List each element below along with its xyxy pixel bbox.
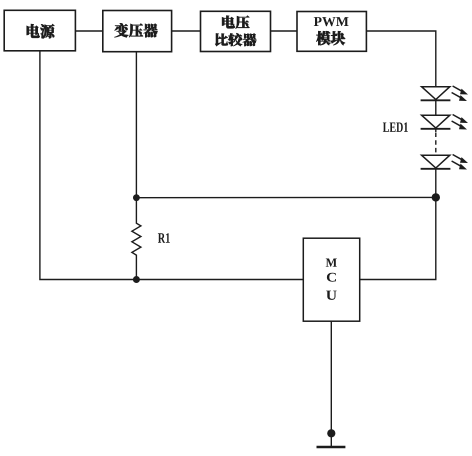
block: MCU bbox=[303, 238, 359, 321]
wire: PWM to LED string top bbox=[366, 31, 435, 87]
wire: LED1 to LED2 bbox=[435, 100, 437, 115]
label R1 bbox=[158, 233, 170, 243]
LED D2 of string LED1 bbox=[421, 115, 468, 130]
ground bbox=[317, 446, 346, 448]
block: power supply 电源 bbox=[4, 10, 75, 51]
block: PWM module PWM模块 bbox=[297, 12, 366, 52]
block: transformer 变压器 bbox=[103, 11, 172, 52]
wire: LED3 down to right junction and on to MCU right side bbox=[360, 169, 436, 280]
node: right junction dot bbox=[432, 193, 440, 201]
wire: power supply down the left side to MCU bbox=[40, 51, 303, 280]
node: dot above ground bbox=[327, 429, 335, 437]
block: voltage comparator 电压比较器 bbox=[201, 11, 271, 51]
LED D1 of string LED1 bbox=[421, 86, 468, 101]
wire: transformer to comparator bbox=[172, 30, 201, 32]
resistor R1 bbox=[132, 198, 141, 280]
wire: middle horizontal (transformer junction to LED junction) bbox=[136, 196, 435, 198]
node: left middle junction dot bbox=[133, 194, 140, 201]
wire: dashed continuation between LED2 and LED3 bbox=[435, 129, 437, 132]
wire: transformer down to middle junction bbox=[135, 52, 137, 198]
wire: MCU bottom to ground bbox=[330, 321, 332, 447]
label LED1 bbox=[383, 122, 408, 131]
node: bottom-left junction dot bbox=[133, 276, 140, 283]
LED D3 of string LED1 bbox=[421, 155, 468, 170]
wire: power to transformer bbox=[75, 30, 102, 32]
wire: comparator to PWM bbox=[271, 30, 298, 32]
